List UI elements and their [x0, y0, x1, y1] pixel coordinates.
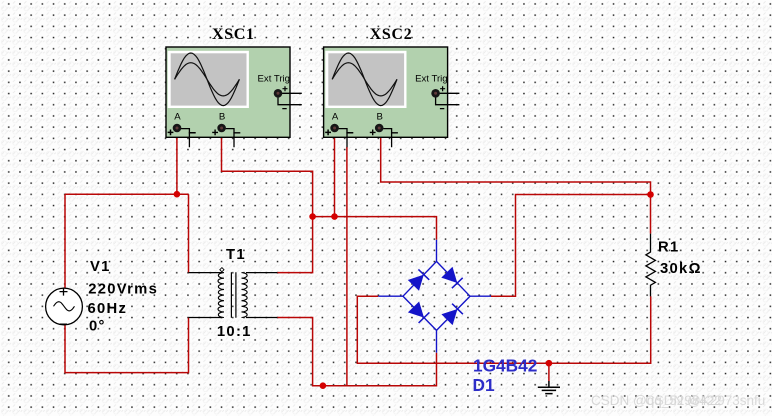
svg-text:60Hz: 60Hz — [88, 301, 128, 317]
svg-text:D1: D1 — [473, 375, 495, 395]
svg-text:Ext Trig: Ext Trig — [258, 73, 291, 84]
svg-text:XSC2: XSC2 — [370, 26, 413, 43]
svg-text:V1: V1 — [90, 259, 111, 275]
svg-text:1G4B42: 1G4B42 — [473, 356, 537, 376]
svg-text:R1: R1 — [658, 240, 680, 256]
svg-text:CSDN @K2973snfu: CSDN @K2973snfu — [645, 393, 765, 408]
svg-text:30kΩ: 30kΩ — [660, 261, 702, 277]
svg-text:220Vrms: 220Vrms — [88, 282, 158, 298]
svg-text:0°: 0° — [89, 319, 106, 335]
svg-text:XSC1: XSC1 — [212, 26, 255, 43]
svg-text:B: B — [219, 112, 225, 123]
svg-text:T1: T1 — [226, 247, 246, 263]
svg-text:A: A — [174, 112, 181, 123]
svg-text:10:1: 10:1 — [217, 324, 252, 340]
